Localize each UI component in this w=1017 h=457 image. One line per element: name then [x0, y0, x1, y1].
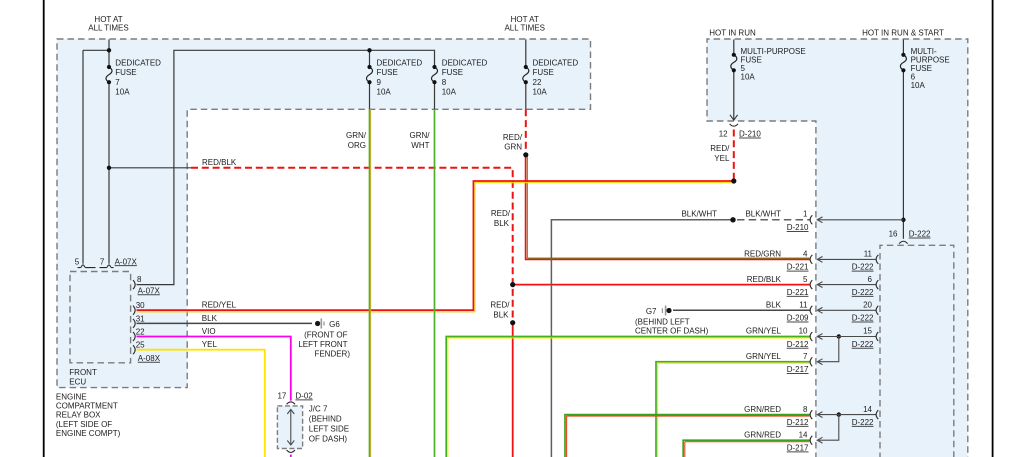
svg-text:FRONT: FRONT: [69, 368, 97, 377]
svg-text:D-221: D-221: [787, 263, 809, 272]
svg-text:6: 6: [868, 275, 873, 284]
svg-text:4: 4: [803, 250, 808, 259]
svg-text:RED/: RED/: [503, 133, 523, 142]
svg-text:RED/YEL: RED/YEL: [202, 301, 237, 310]
svg-text:RED/: RED/: [491, 209, 511, 218]
pin 15 D-222 arc: [876, 332, 878, 341]
node GRN/YEL branch junction: [837, 334, 841, 338]
svg-text:A-07X: A-07X: [138, 286, 161, 295]
svg-text:20: 20: [863, 301, 872, 310]
right fuse/junction box fill: [707, 39, 968, 457]
svg-text:FUSE: FUSE: [442, 68, 463, 77]
ground G7: [662, 306, 671, 316]
svg-text:GRN/RED: GRN/RED: [744, 405, 781, 414]
pin 22 arc: [133, 332, 135, 341]
svg-text:OF DASH): OF DASH): [309, 434, 348, 443]
pin 30 arc: [133, 306, 135, 315]
right fuse/junction box dashed outline: [707, 39, 968, 457]
pin 17 D-02 cap: [287, 402, 295, 404]
svg-text:9: 9: [377, 78, 382, 87]
svg-text:G6: G6: [329, 320, 340, 329]
svg-text:RED/GRN: RED/GRN: [744, 250, 781, 259]
svg-text:D-221: D-221: [787, 288, 809, 297]
svg-text:D-210: D-210: [739, 130, 761, 139]
wire GRN/YEL to pin10 D-212: [446, 337, 809, 457]
svg-text:10A: 10A: [115, 88, 130, 97]
wire RED/YEL yellow stripe: [137, 183, 733, 312]
PIN ARCS: [78, 124, 908, 453]
J/C7 bottom cup: [287, 450, 295, 452]
svg-text:DEDICATED: DEDICATED: [442, 58, 488, 67]
svg-text:RED/BLK: RED/BLK: [202, 158, 237, 167]
node GRN/RED branch junction: [837, 412, 841, 416]
svg-text:COMPARTMENT: COMPARTMENT: [56, 402, 118, 411]
J/C7 internal arrow: [287, 409, 294, 445]
svg-text:11: 11: [799, 301, 808, 310]
wire pin8 to fuses 9 and 8: [137, 50, 435, 284]
svg-text:D-209: D-209: [787, 314, 809, 323]
svg-text:FUSE: FUSE: [533, 68, 554, 77]
svg-text:7: 7: [803, 352, 808, 361]
svg-text:FENDER): FENDER): [314, 350, 350, 359]
wire RED/BLK black stub: [109, 167, 191, 169]
INSIDE-BOX-CONNECTION-LINES: [819, 220, 904, 440]
svg-text:(BEHIND LEFT: (BEHIND LEFT: [635, 318, 690, 327]
pin 7 D-217 arc: [810, 357, 812, 366]
svg-text:8: 8: [442, 78, 447, 87]
svg-text:J/C 7: J/C 7: [309, 405, 328, 414]
svg-text:RED/: RED/: [710, 144, 730, 153]
wire pin4 to pin11 D-222: [819, 258, 877, 260]
svg-text:BLK: BLK: [494, 219, 510, 228]
svg-text:D-222: D-222: [852, 288, 874, 297]
node fuse7 top junction: [107, 48, 111, 52]
svg-text:D-222: D-222: [852, 418, 874, 427]
svg-text:16: 16: [889, 230, 898, 239]
pin 8 A-07X arc: [133, 280, 135, 289]
fuse 8: [431, 67, 437, 82]
wire RED/GRN solid red: [526, 155, 810, 260]
svg-text:DEDICATED: DEDICATED: [115, 58, 161, 67]
wire branch to pin5: [83, 50, 109, 263]
svg-text:YEL: YEL: [714, 154, 730, 163]
wire fuse7 to pin7: [108, 82, 110, 264]
svg-text:ORG: ORG: [348, 141, 366, 150]
inner connector box D-222 dashed outline: [880, 245, 954, 457]
svg-text:10A: 10A: [442, 88, 457, 97]
wire pin7 branch: [819, 337, 839, 362]
node RED/BLK branch junction: [107, 166, 111, 170]
J/C 7 box dashed outline: [277, 406, 302, 449]
FRONT ECU box dashed outline: [70, 272, 131, 363]
wire GRN/RED pin8 red stripe: [567, 416, 810, 457]
svg-text:D-212: D-212: [787, 418, 809, 427]
svg-text:LEFT FRONT: LEFT FRONT: [298, 340, 347, 349]
wire GRN/RED pin14 red stripe: [685, 442, 810, 457]
wire fuse5 feed + to connector D-210 pin12: [733, 40, 735, 120]
arrowheads into left-edge pins of right box: [817, 217, 822, 443]
svg-text:12: 12: [719, 130, 728, 139]
svg-text:ALL TIMES: ALL TIMES: [88, 23, 128, 32]
pin 12 D-210 cup: [730, 124, 738, 126]
wire pin8 to pin14 D-222: [819, 414, 877, 416]
svg-text:30: 30: [136, 301, 145, 310]
node BLK/WHT fuse6 junction: [901, 218, 905, 222]
svg-text:YEL: YEL: [202, 340, 218, 349]
wire GRN/ORG: [369, 109, 371, 457]
wire RED/YEL dashed from D-210 pin12: [733, 130, 735, 182]
node RED/BLK to D-221 junction: [510, 282, 515, 287]
svg-text:GRN: GRN: [504, 143, 522, 152]
pin 5 D-221 arc: [810, 280, 812, 289]
svg-text:GRN/RED: GRN/RED: [744, 430, 781, 439]
svg-text:(FRONT OF: (FRONT OF: [304, 331, 348, 340]
wire RED/YEL solid red: [137, 181, 734, 310]
svg-text:BLK: BLK: [202, 314, 218, 323]
svg-text:ECU: ECU: [69, 378, 86, 387]
wire GRN/YEL pin10 yellow stripe: [448, 338, 810, 457]
wire pin11 to pin20 D-222: [819, 309, 877, 311]
svg-text:BLK: BLK: [766, 301, 782, 310]
svg-text:A-08X: A-08X: [138, 354, 161, 363]
wire pin14 branch: [819, 415, 839, 441]
fuse 5 (multi-purpose): [731, 55, 737, 71]
wire GRN/RED to pin14 D-217: [683, 440, 809, 457]
svg-text:GRN/YEL: GRN/YEL: [746, 352, 782, 361]
wire GRN/YEL to pin7 D-217: [656, 362, 810, 457]
svg-text:D-210: D-210: [787, 223, 809, 232]
fuse 7: [106, 67, 112, 82]
pin 11 D-209 arc: [810, 306, 812, 315]
pin 14 D-217 arc: [810, 436, 812, 445]
svg-text:CENTER OF DASH): CENTER OF DASH): [635, 327, 709, 336]
wire GRN/WHT: [434, 109, 436, 457]
wire RED/BLK solid lower vertical: [512, 323, 514, 457]
ground G6: [315, 319, 324, 329]
svg-text:WHT: WHT: [411, 141, 429, 150]
wire RED/GRN dashed from fuse22: [525, 109, 527, 155]
svg-text:A-07X: A-07X: [115, 257, 138, 266]
node RED/GRN junction: [523, 152, 528, 157]
svg-text:31: 31: [136, 314, 145, 323]
svg-text:FUSE: FUSE: [115, 68, 136, 77]
wire BLK/WHT solid: [551, 220, 733, 457]
svg-text:ALL TIMES: ALL TIMES: [504, 23, 544, 32]
wire pin10 to pin15 D-222: [819, 336, 877, 338]
svg-text:VIO: VIO: [202, 327, 216, 336]
svg-text:22: 22: [136, 327, 145, 336]
page border left: [43, 0, 45, 457]
wire RED/BLK dashed run: [191, 168, 513, 323]
wire RED/GRN green stripe: [527, 156, 809, 258]
svg-text:22: 22: [533, 78, 542, 87]
fuse 22: [523, 67, 529, 82]
svg-text:5: 5: [803, 275, 808, 284]
svg-text:D-222: D-222: [909, 230, 931, 239]
wire RED/BLK branch to pin5 D-221: [513, 284, 810, 286]
fuse 9: [366, 67, 372, 82]
wire BLK/WHT dashed to pin1 D-210: [737, 219, 810, 221]
svg-text:BLK: BLK: [493, 310, 509, 319]
page border right: [992, 0, 994, 457]
svg-text:14: 14: [799, 430, 808, 439]
wire VIO: [137, 337, 291, 457]
svg-text:FUSE: FUSE: [377, 68, 398, 77]
svg-text:D-217: D-217: [787, 365, 809, 374]
svg-text:14: 14: [863, 405, 872, 414]
svg-text:10: 10: [799, 327, 808, 336]
wire fuse7 feed vertical: [108, 40, 110, 68]
svg-text:10A: 10A: [911, 81, 926, 90]
pin 6 D-222 arc: [876, 280, 878, 289]
svg-text:D-217: D-217: [787, 444, 809, 453]
svg-text:GRN/YEL: GRN/YEL: [746, 327, 782, 336]
pin 16 D-222 cap: [899, 241, 907, 243]
node RED/BLK dash-solid junction: [510, 320, 515, 325]
WIRES-BLACK: [83, 40, 903, 285]
svg-text:10A: 10A: [533, 88, 548, 97]
wire GRN/YEL pin7 yellow stripe: [658, 363, 810, 457]
svg-text:ENGINE COMPT): ENGINE COMPT): [56, 429, 121, 438]
wire fuse9 lower stub: [369, 82, 371, 109]
wire BLK from G7 to pin11 D-209: [673, 309, 810, 311]
svg-text:RED/: RED/: [490, 301, 510, 310]
svg-text:G7: G7: [646, 307, 657, 316]
pin 4 arc: [810, 255, 812, 264]
svg-text:HOT IN RUN & START: HOT IN RUN & START: [862, 28, 944, 37]
arrowhead at D-210 pin12: [730, 115, 738, 120]
pin 31 arc: [133, 319, 135, 328]
svg-text:RED/BLK: RED/BLK: [747, 275, 782, 284]
node fuse9 top junction: [367, 48, 371, 52]
svg-text:25: 25: [136, 341, 145, 350]
svg-text:8: 8: [803, 405, 808, 414]
svg-text:RELAY BOX: RELAY BOX: [56, 411, 101, 420]
pin 14 D-222 arc: [876, 410, 878, 419]
wire fuse6 feed + down to BLK/WHT junction and pin16: [902, 40, 904, 239]
svg-text:(BEHIND: (BEHIND: [309, 415, 342, 424]
svg-text:BLK/WHT: BLK/WHT: [745, 209, 781, 218]
svg-text:10A: 10A: [741, 73, 756, 82]
wire pin5 to pin6 D-222: [819, 284, 877, 286]
wire pin1 to fuse6 junction: [819, 219, 904, 221]
fuse 6 (multi-purpose): [900, 55, 906, 71]
pin 8 D-212 arc: [810, 410, 812, 419]
wire YEL: [137, 350, 265, 457]
svg-text:5: 5: [75, 257, 80, 266]
svg-text:HOT IN RUN: HOT IN RUN: [709, 28, 756, 37]
svg-text:D-222: D-222: [852, 314, 874, 323]
relay box (engine compartment) fill: [57, 39, 591, 388]
svg-text:LEFT SIDE: LEFT SIDE: [309, 424, 349, 433]
svg-text:17: 17: [277, 392, 286, 401]
svg-text:GRN/: GRN/: [346, 131, 367, 140]
svg-text:10A: 10A: [377, 88, 392, 97]
svg-text:D-212: D-212: [787, 340, 809, 349]
svg-text:D-222: D-222: [852, 263, 874, 272]
wire fuse22 feed + lower stub: [525, 40, 527, 110]
svg-text:7: 7: [100, 257, 105, 266]
pin 1 arc: [810, 215, 812, 224]
svg-text:1: 1: [803, 209, 808, 218]
wire fuse8 lower stub: [434, 82, 436, 109]
svg-text:11: 11: [864, 250, 873, 259]
svg-text:15: 15: [863, 327, 872, 336]
pin 7 A-07X arc: [100, 265, 114, 268]
wire GRN/ORG orange stripe: [370, 109, 372, 457]
pin 20 D-222 arc: [876, 306, 878, 315]
pin 11 D-222 arc: [876, 255, 878, 264]
svg-text:ENGINE: ENGINE: [56, 393, 87, 402]
svg-text:D-222: D-222: [852, 340, 874, 349]
pin 25 arc: [133, 345, 135, 354]
svg-text:7: 7: [115, 78, 120, 87]
pin 10 arc: [810, 332, 812, 341]
svg-text:D-02: D-02: [295, 392, 313, 401]
J/C 7 box fill: [277, 406, 302, 449]
svg-text:DEDICATED: DEDICATED: [533, 58, 579, 67]
wire GRN/RED to pin8 D-212: [565, 415, 810, 457]
node BLK/WHT dash junction: [730, 217, 735, 222]
svg-text:DEDICATED: DEDICATED: [377, 58, 423, 67]
relay box (engine compartment) dashed outline: [57, 39, 591, 388]
node RED/YEL junction: [731, 178, 736, 183]
pin 5 A-07X arc: [78, 265, 96, 268]
svg-text:BLK/WHT: BLK/WHT: [681, 209, 717, 218]
wire BLK to ground G6: [137, 322, 313, 324]
svg-text:8: 8: [137, 275, 142, 284]
svg-text:(LEFT SIDE OF: (LEFT SIDE OF: [56, 420, 112, 429]
svg-text:GRN/: GRN/: [410, 131, 431, 140]
